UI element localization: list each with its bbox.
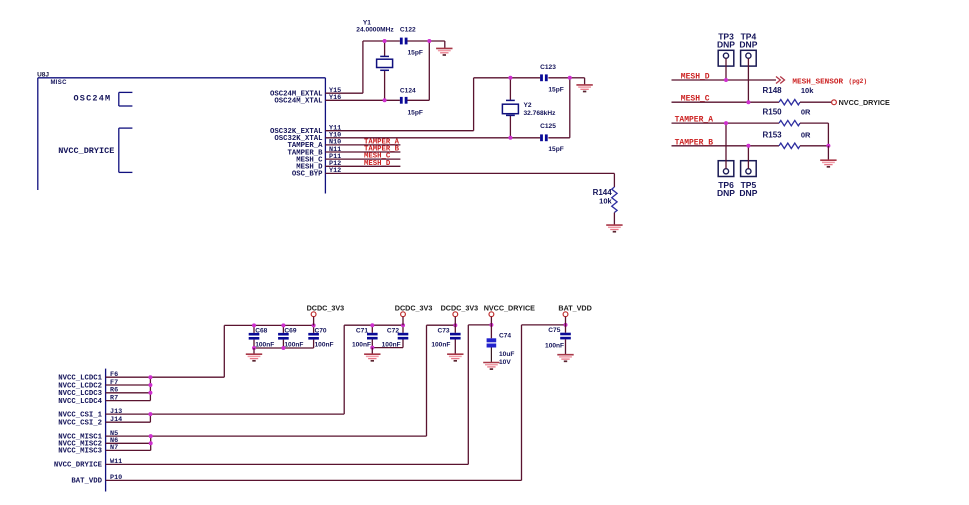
svg-text:C124: C124	[400, 88, 416, 95]
svg-text:U8J: U8J	[37, 71, 49, 78]
svg-text:C73: C73	[437, 328, 449, 335]
svg-text:NVCC_LCDC3: NVCC_LCDC3	[58, 390, 102, 398]
svg-text:TAMPER_B: TAMPER_B	[675, 138, 714, 147]
svg-text:TAMPER_A: TAMPER_A	[675, 116, 714, 125]
svg-text:DNP: DNP	[739, 188, 757, 198]
svg-text:C69: C69	[284, 328, 296, 335]
svg-text:R144: R144	[593, 188, 613, 197]
svg-text:DCDC_3V3: DCDC_3V3	[395, 304, 433, 313]
svg-text:10V: 10V	[499, 359, 511, 366]
svg-text:DNP: DNP	[717, 188, 735, 198]
svg-text:(pg2): (pg2)	[849, 78, 868, 85]
svg-text:100nF: 100nF	[382, 341, 401, 348]
svg-text:NVCC_DRYICE: NVCC_DRYICE	[54, 462, 103, 470]
svg-text:NVCC_CSI_2: NVCC_CSI_2	[58, 420, 102, 428]
svg-text:0R: 0R	[801, 130, 811, 139]
svg-text:OSC24M_XTAL: OSC24M_XTAL	[274, 98, 322, 106]
svg-text:C70: C70	[315, 328, 327, 335]
svg-text:DNP: DNP	[739, 40, 757, 50]
svg-text:C68: C68	[255, 328, 267, 335]
svg-text:C74: C74	[499, 332, 511, 339]
svg-text:R150: R150	[763, 108, 783, 117]
svg-text:15pF: 15pF	[408, 109, 423, 116]
svg-text:R148: R148	[763, 86, 783, 95]
svg-text:NVCC_CSI_1: NVCC_CSI_1	[58, 411, 102, 419]
svg-text:NVCC_LCDC2: NVCC_LCDC2	[58, 382, 102, 390]
svg-text:R153: R153	[763, 130, 783, 139]
svg-text:100nF: 100nF	[315, 341, 334, 348]
svg-text:0R: 0R	[801, 108, 811, 117]
svg-text:32.768kHz: 32.768kHz	[524, 110, 557, 117]
svg-text:10k: 10k	[599, 197, 612, 206]
svg-text:15pF: 15pF	[548, 146, 563, 153]
svg-text:100nF: 100nF	[545, 342, 564, 349]
svg-text:DCDC_3V3: DCDC_3V3	[441, 304, 479, 313]
svg-text:DCDC_3V3: DCDC_3V3	[307, 304, 345, 313]
svg-text:MESH_D: MESH_D	[681, 73, 710, 82]
svg-text:10uF: 10uF	[499, 351, 514, 358]
svg-text:100nF: 100nF	[255, 341, 274, 348]
svg-text:15pF: 15pF	[408, 49, 423, 56]
svg-text:C71: C71	[356, 328, 368, 335]
svg-text:100nF: 100nF	[284, 341, 303, 348]
svg-text:C122: C122	[400, 27, 416, 34]
svg-text:15pF: 15pF	[548, 86, 563, 93]
svg-text:NVCC_LCDC4: NVCC_LCDC4	[58, 398, 102, 406]
svg-text:MESH_C: MESH_C	[681, 95, 710, 104]
svg-text:OSC_BYP: OSC_BYP	[292, 171, 323, 179]
svg-text:C72: C72	[387, 328, 399, 335]
svg-text:10k: 10k	[801, 86, 814, 95]
svg-text:OSC24M: OSC24M	[74, 94, 112, 104]
svg-text:BAT_VDD: BAT_VDD	[71, 478, 102, 486]
svg-text:Y2: Y2	[524, 102, 532, 109]
svg-text:NVCC_DRYICE: NVCC_DRYICE	[839, 98, 890, 107]
svg-text:24.0000MHz: 24.0000MHz	[356, 27, 394, 34]
svg-text:C125: C125	[540, 123, 556, 130]
svg-text:NVCC_LCDC1: NVCC_LCDC1	[58, 375, 102, 383]
svg-text:DNP: DNP	[717, 40, 735, 50]
svg-text:BAT_VDD: BAT_VDD	[558, 304, 591, 313]
svg-text:NVCC_DRYICE: NVCC_DRYICE	[58, 146, 114, 156]
svg-text:MISC: MISC	[51, 80, 68, 86]
svg-text:C123: C123	[540, 64, 556, 71]
svg-text:NVCC_DRYICE: NVCC_DRYICE	[484, 304, 535, 313]
svg-text:100nF: 100nF	[352, 341, 371, 348]
svg-text:C75: C75	[548, 327, 560, 334]
svg-text:NVCC_MISC3: NVCC_MISC3	[58, 448, 102, 456]
svg-text:Y1: Y1	[363, 19, 371, 26]
svg-text:100nF: 100nF	[431, 341, 450, 348]
